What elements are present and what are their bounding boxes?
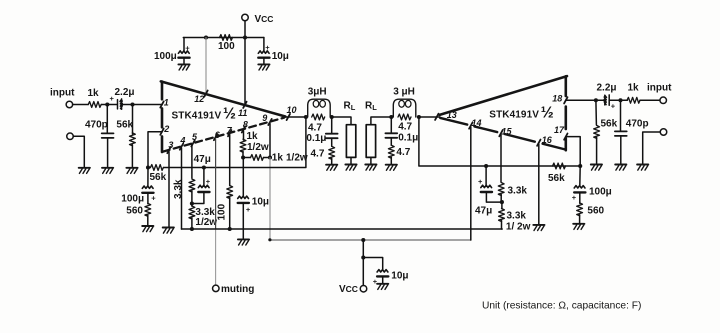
capacitor 10u (bottom)	[363, 258, 382, 271]
svg-text:1: 1	[164, 97, 169, 107]
VCC terminal (top)	[242, 14, 249, 21]
svg-text:560: 560	[126, 206, 143, 217]
svg-text:100: 100	[216, 203, 227, 220]
svg-text:17: 17	[554, 125, 565, 135]
wire top supply rail	[183, 37, 264, 39]
svg-text:15: 15	[502, 127, 513, 137]
svg-text:4.7: 4.7	[398, 122, 412, 133]
wire feedback line left (output to 56k node)	[164, 117, 306, 168]
svg-text:STK4191V: STK4191V	[172, 110, 222, 121]
svg-text:1/ 2w: 1/ 2w	[506, 222, 531, 233]
svg-text:+: +	[206, 177, 211, 186]
svg-text:5: 5	[192, 132, 198, 142]
node dot pin18/56k	[594, 98, 598, 102]
svg-text:56k: 56k	[150, 172, 167, 183]
op-amp U1b top edge	[440, 76, 567, 115]
svg-text:470p: 470p	[85, 119, 108, 130]
svg-text:470p: 470p	[626, 119, 649, 130]
op-amp U1b bottom edge segments	[440, 118, 565, 150]
svg-text:100μ: 100μ	[154, 51, 177, 62]
svg-text:14: 14	[472, 118, 482, 128]
pin 9 tick	[268, 119, 271, 125]
wire pin 9 down	[269, 124, 271, 158]
svg-text:4.7: 4.7	[396, 147, 410, 158]
op-amp U1b right edge	[564, 76, 567, 150]
inductor 3uH (right)	[393, 99, 416, 117]
input terminal (left)	[66, 101, 73, 108]
svg-text:18: 18	[552, 94, 562, 104]
pin 14 tick	[469, 123, 472, 129]
capacitor 10u (top right)	[263, 38, 265, 52]
load RL (left)	[332, 117, 351, 125]
svg-text:input: input	[50, 87, 75, 98]
svg-text:VCC: VCC	[339, 284, 358, 295]
svg-text:+: +	[478, 177, 483, 186]
svg-text:1/2w: 1/2w	[247, 142, 269, 153]
resistor 4.7 (right coil damping)	[398, 114, 411, 120]
capacitor 47u (left)	[203, 168, 205, 186]
svg-text:RL: RL	[365, 100, 377, 112]
node dot right feedback end	[578, 164, 582, 168]
pin 15 tick	[499, 130, 502, 136]
node dot input/470p	[105, 102, 109, 106]
node dot rail A 100	[228, 227, 232, 231]
wire pin 16 to ground	[538, 144, 540, 224]
svg-text:1k: 1k	[247, 131, 259, 142]
node dot VCC/10u tap	[361, 255, 365, 259]
node dot 2.2u/470p right	[618, 98, 622, 102]
wire rail A	[182, 228, 503, 230]
resistor 4.7 (left zobel)	[329, 146, 335, 159]
node dot rail B corner	[268, 238, 271, 241]
pin 2 tick	[160, 129, 163, 135]
svg-text:+: +	[265, 43, 270, 52]
ground (pin 16)	[533, 225, 544, 231]
node dot 2.2u/56k	[130, 102, 134, 106]
svg-text:4: 4	[179, 135, 185, 145]
node dot right 3.3k junction	[500, 200, 504, 204]
wire input2 right to ground	[643, 132, 661, 164]
wire pin 6 / muting line upper	[215, 139, 217, 230]
resistor 3.3k (pin 15 upper)	[500, 135, 502, 183]
svg-text:VCC: VCC	[255, 14, 274, 25]
svg-text:12: 12	[194, 94, 204, 104]
node dot rail A chain	[190, 227, 194, 231]
ground (below 100u top)	[178, 64, 189, 70]
pin 16 tick	[537, 140, 540, 146]
svg-text:8: 8	[243, 119, 248, 129]
svg-text:56k: 56k	[548, 173, 565, 184]
svg-text:+: +	[611, 102, 616, 111]
capacitor 2.2u (left input)	[118, 99, 123, 109]
svg-text:1/2w: 1/2w	[286, 153, 308, 164]
svg-text:+: +	[151, 194, 156, 203]
svg-text:2.2μ: 2.2μ	[597, 82, 617, 93]
pin 4 tick	[180, 144, 183, 150]
capacitor 470p (left)	[106, 105, 108, 133]
svg-text:10μ: 10μ	[272, 51, 289, 62]
wire pin 14 down to rail B	[470, 127, 472, 240]
ground (below 560 right)	[573, 224, 584, 230]
svg-text:Unit (resistance: Ω, capacitan: Unit (resistance: Ω, capacitance: F)	[482, 300, 641, 311]
svg-text:3.3k: 3.3k	[508, 186, 528, 197]
wire 1k to input terminal right	[640, 99, 660, 101]
ground (right zobel)	[386, 165, 397, 171]
resistor 4.7 (left coil damping)	[312, 114, 325, 120]
svg-text:10: 10	[287, 105, 297, 115]
node dot rail B VCC	[361, 238, 365, 242]
node junction dot pin12 rail	[204, 35, 208, 39]
wire rail B	[270, 239, 471, 241]
resistor 100 (pin 7, rotated label)	[229, 135, 231, 186]
svg-text:9: 9	[262, 113, 267, 123]
resistor 1k 1/2w (pin 8, vertical)	[243, 131, 245, 141]
input terminal 2 (left)	[67, 133, 74, 140]
node dot feedback/pin2	[146, 165, 150, 169]
load RL (right)	[371, 117, 391, 125]
svg-text:11: 11	[238, 108, 247, 118]
wire VCC bottom stem	[362, 240, 364, 286]
svg-text:3: 3	[168, 140, 173, 150]
wire VCC stem to rail	[244, 21, 246, 38]
inductor 3uH (left)	[308, 99, 331, 117]
input terminal (right)	[660, 97, 667, 104]
svg-text:3.3k: 3.3k	[507, 210, 527, 221]
pin 1 tick	[160, 101, 163, 107]
svg-text:1k: 1k	[272, 153, 284, 164]
svg-text:0.1μ: 0.1μ	[306, 133, 326, 144]
svg-text:100: 100	[218, 41, 235, 52]
wire pin 2 to feedback node	[148, 132, 162, 168]
wire pin 11 / VCC	[244, 38, 246, 105]
ground (below 56k left)	[126, 168, 137, 174]
pin 18 tick	[564, 97, 567, 103]
wire 1k to node	[101, 104, 117, 106]
svg-text:47μ: 47μ	[194, 154, 211, 165]
node dot 3.3k junction	[190, 201, 194, 205]
svg-text:56k: 56k	[601, 119, 618, 130]
wire pin 3 to ground	[168, 152, 170, 227]
wire 2.2u to pin 1	[122, 104, 162, 106]
wire pin9 node to rail B (light)	[269, 158, 271, 241]
svg-text:0.1μ: 0.1μ	[398, 133, 418, 144]
resistor 3.3k 1/2w (pin 5 lower)	[191, 204, 193, 207]
op-amp U1 left edge	[161, 82, 164, 152]
ground (input2 right)	[637, 165, 648, 171]
svg-text:3.3k: 3.3k	[195, 207, 215, 218]
svg-text:3 μH: 3 μH	[393, 87, 415, 98]
ground (left zobel)	[326, 165, 337, 171]
ground (left RL)	[345, 165, 356, 171]
pin 3 tick	[167, 147, 170, 153]
resistor 3.3k (pin 5 upper, rotated label)	[191, 145, 193, 179]
ground (rail A / 10u)	[238, 239, 249, 245]
pin 5 tick	[191, 140, 194, 146]
svg-text:56k: 56k	[116, 119, 133, 130]
svg-text:1k: 1k	[88, 88, 100, 99]
svg-text:½: ½	[541, 105, 554, 122]
node dot right 47u tap	[484, 164, 488, 168]
node dot left coil in	[304, 115, 308, 119]
resistor 56k (left input)	[132, 105, 134, 135]
ground (below 560 left)	[142, 226, 153, 232]
svg-text:3.3k: 3.3k	[173, 179, 184, 199]
wire feedback line right	[419, 117, 580, 166]
resistor 560 (right mid)	[577, 203, 583, 216]
wire pin 17 to feedback node	[566, 137, 580, 166]
ground (below 10u top)	[258, 64, 269, 70]
wire input to 1k	[73, 104, 89, 106]
ground (below 470p left)	[102, 168, 113, 174]
svg-text:½: ½	[223, 106, 236, 123]
node dot right coil in	[417, 115, 421, 119]
capacitor 10u (left mid chain)	[242, 158, 244, 197]
svg-text:16: 16	[542, 135, 553, 145]
resistor 1k (right input)	[627, 97, 640, 103]
resistor 4.7 (right zobel)	[388, 145, 394, 158]
node dot feedback/47u	[202, 165, 206, 169]
capacitor 47u (right)	[485, 166, 487, 186]
svg-text:1/2w: 1/2w	[195, 217, 217, 228]
VCC terminal (bottom)	[360, 285, 367, 292]
ground (right RL)	[365, 165, 376, 171]
svg-text:RL: RL	[344, 100, 356, 112]
input terminal 2 (right)	[660, 129, 667, 136]
resistor 3.3k 1/2w (pin 15 lower)	[501, 202, 503, 208]
svg-text:560: 560	[587, 206, 604, 217]
svg-text:10μ: 10μ	[252, 196, 269, 207]
ground (input2 left)	[79, 168, 90, 174]
resistor 56k (right input)	[595, 100, 598, 125]
wire left output	[285, 116, 306, 118]
resistor 1k (left input)	[88, 102, 101, 108]
pin 6 tick	[214, 134, 217, 140]
op-amp U1 bottom edge (dashed)	[163, 118, 284, 152]
svg-text:3μH: 3μH	[308, 87, 327, 98]
op-amp U1 top edge	[161, 81, 285, 116]
resistor 1k 1/2w (horizontal, pin8 to pin9)	[243, 157, 250, 159]
resistor 56k (left feedback)	[150, 165, 163, 171]
svg-text:10μ: 10μ	[391, 271, 408, 282]
capacitor 100u (right mid)	[579, 166, 581, 186]
svg-text:47μ: 47μ	[475, 205, 492, 216]
node junction dot pin11 rail	[243, 35, 247, 39]
pin 17 tick	[564, 134, 567, 140]
muting terminal	[213, 285, 220, 292]
svg-text:+: +	[110, 94, 115, 103]
capacitor 470p (right)	[620, 100, 622, 131]
node dot left zobel	[330, 115, 334, 119]
svg-text:2.2μ: 2.2μ	[115, 87, 135, 98]
resistor 56k (right feedback)	[553, 163, 566, 169]
node dot right zobel	[389, 115, 393, 119]
svg-text:4.7: 4.7	[311, 148, 325, 159]
capacitor 2.2u (right input)	[604, 95, 609, 105]
capacitor 0.1u (left zobel)	[331, 117, 333, 133]
pin 10 output tick	[287, 114, 290, 120]
node dot pin8 bottom	[241, 155, 245, 159]
wire right output to apex	[419, 116, 440, 118]
svg-text:2: 2	[163, 124, 169, 134]
svg-text:input: input	[647, 83, 672, 94]
svg-text:STK4191V: STK4191V	[489, 110, 539, 121]
wire pin 4 down to rail A	[181, 148, 183, 229]
pin 12 tick	[204, 91, 207, 97]
svg-text:1k: 1k	[628, 83, 640, 94]
pin 11 tick	[243, 102, 246, 108]
ground (below 470p right)	[615, 165, 626, 171]
svg-text:+: +	[246, 205, 251, 214]
svg-text:100μ: 100μ	[121, 194, 144, 205]
capacitor 0.1u (right zobel)	[390, 117, 392, 133]
resistor 560 (left mid)	[145, 203, 151, 216]
node dot pin9 bottom	[268, 155, 272, 159]
svg-text:13: 13	[447, 110, 457, 120]
ground (below 56k right)	[591, 165, 602, 171]
wire pin 12 (gray)	[205, 38, 207, 93]
resistor 100 (top rail)	[220, 35, 233, 41]
wire 2.2u to 1k	[609, 99, 627, 101]
pin 8 tick	[242, 126, 245, 132]
pin 7 tick	[228, 130, 231, 136]
capacitor 100u (left mid)	[147, 168, 149, 187]
wire pin 18 out	[566, 99, 605, 101]
ground (bottom 10u)	[377, 284, 388, 290]
svg-text:+: +	[185, 43, 190, 52]
wire input2 to ground	[73, 136, 84, 167]
svg-text:+: +	[572, 193, 577, 202]
svg-text:muting: muting	[221, 284, 254, 295]
pin 13 apex tick	[435, 114, 438, 120]
wire muting line lower (light)	[215, 229, 217, 285]
svg-text:100μ: 100μ	[589, 186, 612, 197]
capacitor 100u (top left)	[183, 38, 185, 52]
ground (pin 3)	[163, 228, 174, 234]
